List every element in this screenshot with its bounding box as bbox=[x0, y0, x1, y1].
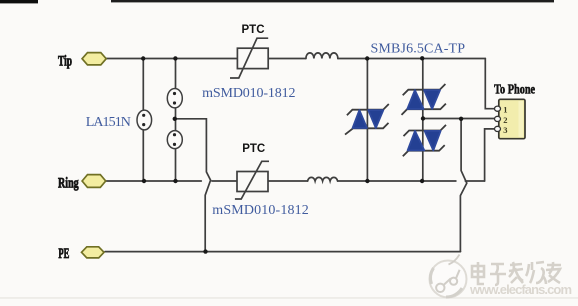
top border segment left bbox=[0, 0, 38, 3]
pin 2 bbox=[495, 116, 501, 121]
pin 1 bbox=[495, 106, 501, 111]
inductor L2 bbox=[308, 177, 338, 181]
wire Ring rail right bbox=[338, 180, 485, 182]
svg-text:LA151N: LA151N bbox=[86, 115, 131, 130]
svg-text:Ring: Ring bbox=[58, 175, 79, 191]
wire GDT column 1 bbox=[142, 59, 144, 182]
wire middle tap to pin 2 bbox=[423, 118, 495, 120]
watermark logo bbox=[430, 255, 467, 298]
wire Tip rail left bbox=[106, 58, 237, 60]
node Ring-D1 bbox=[365, 179, 369, 183]
node PE riser mid bbox=[459, 117, 463, 121]
node Ring-G2 bbox=[173, 179, 177, 183]
TVS D2 bbox=[402, 84, 446, 115]
node Tip-D1 bbox=[365, 56, 369, 60]
connector Tip terminal bbox=[82, 53, 106, 65]
wire to pin 1 bbox=[485, 59, 495, 109]
watermark chinese text bbox=[472, 262, 561, 285]
svg-text:www.elecfans.com: www.elecfans.com bbox=[469, 282, 572, 297]
node Tip-D2 bbox=[420, 56, 424, 60]
PTC RT1 bbox=[230, 38, 268, 78]
svg-text:mSMD010-1812: mSMD010-1812 bbox=[212, 203, 308, 218]
wire PE rail bbox=[105, 251, 460, 253]
connector Ring terminal bbox=[82, 175, 106, 188]
top border segment right bbox=[111, 0, 554, 2]
node Tip-G1 bbox=[141, 56, 145, 60]
connector PE terminal bbox=[82, 247, 105, 258]
wire Ring rail mid bbox=[268, 180, 308, 182]
svg-text:To Phone: To Phone bbox=[494, 83, 535, 98]
wire Ring rail left bbox=[106, 180, 237, 182]
wire PE riser bbox=[460, 119, 466, 252]
wire Tip rail right bbox=[338, 58, 485, 60]
gas tube G2a bbox=[167, 89, 182, 108]
wire to pin 3 bbox=[485, 129, 495, 181]
TVS D3 bbox=[403, 125, 446, 156]
node G2 mid bbox=[173, 117, 177, 121]
svg-text:mSMD010-1812: mSMD010-1812 bbox=[202, 86, 295, 101]
svg-text:Tip: Tip bbox=[58, 53, 72, 69]
wire GDT center tap bbox=[176, 119, 211, 252]
gas tube G2b bbox=[167, 131, 182, 149]
svg-text:2: 2 bbox=[503, 115, 507, 125]
node Ring-G1 bbox=[142, 179, 146, 183]
wire TVS column D2 D3 bbox=[422, 59, 424, 182]
node Ring-D3 bbox=[420, 179, 424, 183]
inductor L1 bbox=[306, 53, 338, 59]
gas tube G1 LA151N bbox=[137, 110, 152, 130]
faint bottom rule bbox=[0, 297, 578, 299]
node D2-D3 mid bbox=[421, 116, 425, 120]
svg-text:PTC: PTC bbox=[242, 24, 265, 36]
wire Tip rail mid bbox=[268, 58, 306, 60]
svg-text:3: 3 bbox=[503, 125, 507, 135]
svg-text:PTC: PTC bbox=[242, 143, 265, 155]
pin 3 bbox=[495, 126, 501, 131]
wire GDT column 2 bbox=[175, 59, 177, 182]
svg-text:SMBJ6.5CA-TP: SMBJ6.5CA-TP bbox=[371, 42, 466, 57]
svg-text:PE: PE bbox=[58, 246, 69, 262]
node Tip-G2 bbox=[173, 56, 177, 60]
PTC RT2 bbox=[235, 161, 269, 199]
wire TVS column D1 bbox=[366, 59, 368, 182]
TVS D1 bbox=[345, 104, 389, 135]
connector J1 To Phone bbox=[495, 99, 526, 138]
svg-text:1: 1 bbox=[503, 105, 507, 115]
node PE-G2 bbox=[203, 249, 207, 253]
